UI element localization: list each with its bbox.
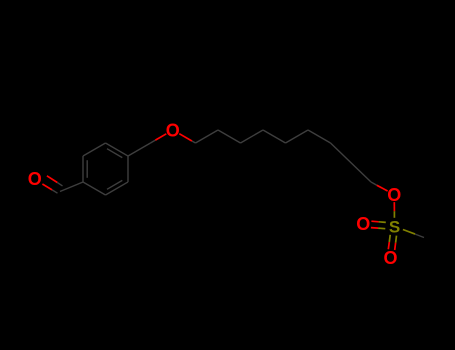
svg-text:O: O — [387, 185, 401, 205]
svg-text:O: O — [383, 248, 397, 268]
svg-text:O: O — [166, 121, 180, 141]
svg-text:O: O — [356, 214, 370, 234]
svg-text:S: S — [389, 218, 400, 237]
svg-text:O: O — [28, 169, 42, 189]
